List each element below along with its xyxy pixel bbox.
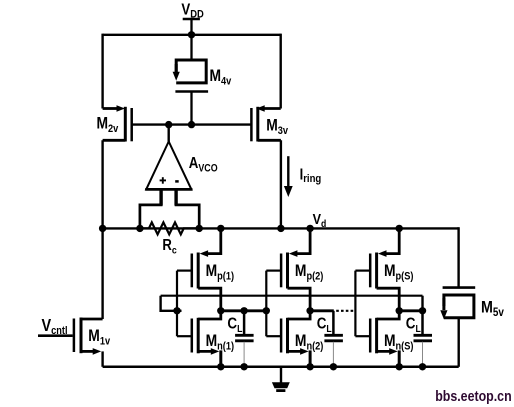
resistor Rc [140,222,199,256]
transistor Mn(2) (NMOS stage 2) [281,311,323,367]
transistor Mp(2) (PMOS stage 2) [281,228,323,310]
wire AVCO + input [159,189,162,205]
node gate/AVCO junction [165,121,172,128]
node bus junctions [173,307,180,314]
wire stage1 input stub [161,296,182,311]
transistor Mp(1) (PMOS stage 1) [192,228,234,310]
transistor M2v [97,105,132,141]
label Vcntl [42,317,68,338]
wire M3v drain to Vd [280,140,282,228]
transistor Mn(S) (NMOS stage 3) [370,311,413,367]
wire gate line M2v-M3v [132,123,252,125]
capacitor CL stage 2 [317,311,343,367]
transistor M3v [251,105,288,141]
wire bus stage3 out to CL3 [399,309,422,312]
wire AVCO - input [174,189,177,205]
wire left drop to M2v [101,34,103,109]
wire M1v drain up to Vd rail [101,140,103,319]
capacitor CL stage 1 [227,311,253,367]
label Vd [313,210,327,231]
wire ground rail [103,366,459,369]
wire gate input stage 3 [355,270,370,272]
wire AVCO output stem [167,125,169,143]
wire M1v source to ground rail [101,351,103,366]
svg-text:bbs.eetop.cn: bbs.eetop.cn [435,388,511,404]
capacitor CL stage 3 [406,311,432,367]
wire Vd rail [103,227,459,229]
wire feedback line [161,295,423,297]
op-amp AVCO [145,142,218,190]
wire feedback drop right [421,296,423,311]
watermark bbs.eetop.cn [435,388,511,404]
VDD terminal [181,1,204,21]
transistor M1v (NMOS) [74,318,111,355]
transistor Mp(S) (PMOS stage 3) [370,228,413,310]
transistor M5v (MOS capacitor) [440,288,504,320]
transistor Mn(1) (NMOS stage 1) [192,311,234,367]
wire VDD stem [190,19,192,35]
transistor M4v (MOS capacitor) [173,35,232,125]
node Vd rail junctions [99,225,106,232]
node VDD junction [188,31,195,38]
wire bus stage2 out to CL2 [310,309,334,312]
node gate/M4v junction [188,121,195,128]
wire Vcntl [38,334,73,337]
current arrow Iring [284,156,321,197]
node ground rail junctions [217,363,224,370]
wire M5v to ground [458,318,460,367]
wire Vd rail right drop [457,227,459,287]
wire bus stage1 out to stage2 in [221,309,266,312]
wire gate input stage 1 [177,270,192,272]
wire right drop to M3v [280,34,282,109]
ground symbol [272,367,290,391]
wire dashed continuation [336,310,355,312]
wire gate input stage 2 [266,270,281,272]
wire top supply rail [103,34,281,36]
